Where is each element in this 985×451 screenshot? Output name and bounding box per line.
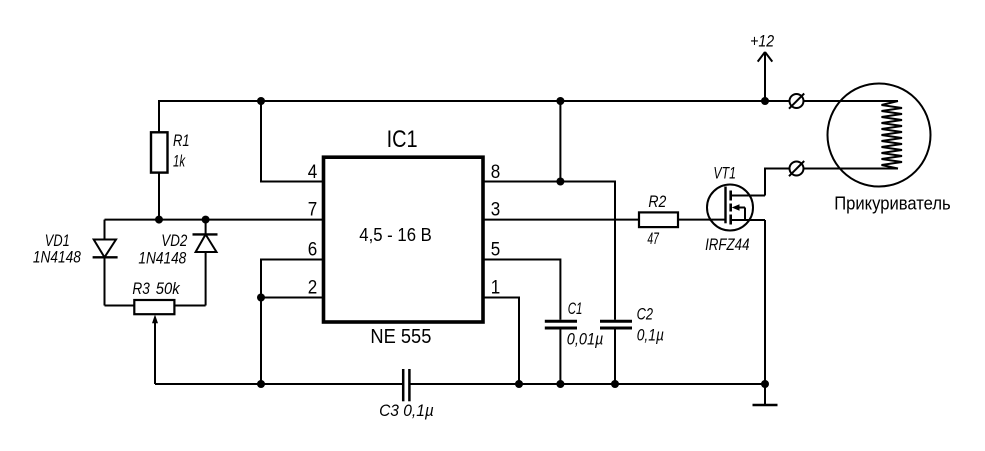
svg-text:0,1µ: 0,1µ xyxy=(637,326,664,345)
wire: pin 4 branch xyxy=(261,101,322,182)
connector X1 top xyxy=(789,94,804,109)
diode VD1 xyxy=(93,220,118,306)
svg-text:1k: 1k xyxy=(173,151,186,170)
node: bottom rail / C2 xyxy=(611,380,619,388)
node: top rail / +12 xyxy=(761,97,769,105)
svg-text:4: 4 xyxy=(308,161,318,183)
wire: pin 7 rail xyxy=(105,219,323,221)
wire: R2 to gate xyxy=(678,219,726,221)
svg-text:NE 555: NE 555 xyxy=(370,326,431,348)
node: bottom rail / C1 xyxy=(556,380,564,388)
svg-text:2: 2 xyxy=(308,276,318,298)
wire: top supply rail xyxy=(159,101,898,132)
svg-text:6: 6 xyxy=(308,238,318,260)
svg-text:50k: 50k xyxy=(156,279,181,298)
R3 wiper arrow xyxy=(152,315,158,385)
wire: pin 1 down xyxy=(483,298,519,385)
wire: source down to bottom rail xyxy=(764,220,766,384)
svg-text:3: 3 xyxy=(491,199,501,221)
wire: R1 bottom to pin7 rail xyxy=(158,173,160,220)
wire: pin8 to C2 branch xyxy=(560,182,615,320)
capacitor C2 xyxy=(600,321,632,384)
connector X2 bottom xyxy=(789,161,804,176)
IC1 NE555 box xyxy=(324,157,484,322)
node: top rail / pin8 xyxy=(556,97,564,105)
svg-text:C2: C2 xyxy=(637,304,654,323)
svg-text:IC1: IC1 xyxy=(387,126,418,153)
node: pin2 tie xyxy=(257,294,265,302)
transistor VT1 (IRFZ44 MOSFET) xyxy=(707,185,765,231)
node: bottom rail / ground xyxy=(761,380,769,388)
resistor R2 xyxy=(639,212,678,227)
svg-text:VT1: VT1 xyxy=(713,164,736,183)
svg-text:4,5 - 16 В: 4,5 - 16 В xyxy=(359,224,432,245)
capacitor C1 xyxy=(545,321,577,384)
node: bottom rail / pin1 xyxy=(515,380,523,388)
potentiometer R3 xyxy=(134,300,174,314)
svg-text:R2: R2 xyxy=(648,192,666,211)
wire: VD1 to R3 left xyxy=(105,305,135,307)
wire: pin 2 stub xyxy=(261,297,322,299)
svg-text:7: 7 xyxy=(308,199,318,221)
capacitor C3 xyxy=(403,369,409,401)
node: top rail / pin4 xyxy=(257,97,265,105)
svg-text:47: 47 xyxy=(647,229,659,248)
svg-text:IRFZ44: IRFZ44 xyxy=(705,235,749,254)
node: pin7 / R1 xyxy=(155,216,163,224)
svg-text:5: 5 xyxy=(491,238,501,260)
node: bottom rail / pins tie xyxy=(257,380,265,388)
lighter body circle xyxy=(828,84,931,187)
node: pin7 / VD2 xyxy=(202,216,210,224)
+12 supply arrow xyxy=(758,52,773,101)
svg-text:R3: R3 xyxy=(132,279,150,298)
svg-text:1N4148: 1N4148 xyxy=(138,249,186,268)
svg-text:R1: R1 xyxy=(173,131,190,150)
wire: VD2 to R3 right xyxy=(174,305,205,307)
wire: pin 5 to C1 xyxy=(483,260,560,320)
svg-text:0,01µ: 0,01µ xyxy=(567,329,604,348)
svg-text:VD2: VD2 xyxy=(161,231,187,250)
svg-text:1N4148: 1N4148 xyxy=(33,247,81,266)
svg-text:C3 0,1µ: C3 0,1µ xyxy=(379,401,434,420)
wire: pin 8 supply branch xyxy=(483,101,560,182)
svg-text:Прикуриватель: Прикуриватель xyxy=(834,193,951,213)
svg-text:1: 1 xyxy=(491,276,501,298)
wire: pin 3 to R2 xyxy=(483,219,639,221)
wire: lighter bottom lead xyxy=(765,169,898,196)
ground xyxy=(753,384,778,405)
diode VD2 xyxy=(193,220,218,306)
wire: bottom rail right of C3 xyxy=(409,383,765,385)
node: pin8 / supply xyxy=(556,178,564,186)
wire: bottom rail left of C3 xyxy=(155,383,403,385)
svg-text:+12: +12 xyxy=(750,31,774,50)
svg-text:C1: C1 xyxy=(568,299,583,318)
svg-text:8: 8 xyxy=(491,161,501,183)
heater zigzag xyxy=(882,101,903,169)
wire: pins 6/2 tie branch xyxy=(261,260,322,385)
resistor R1 xyxy=(151,132,168,172)
